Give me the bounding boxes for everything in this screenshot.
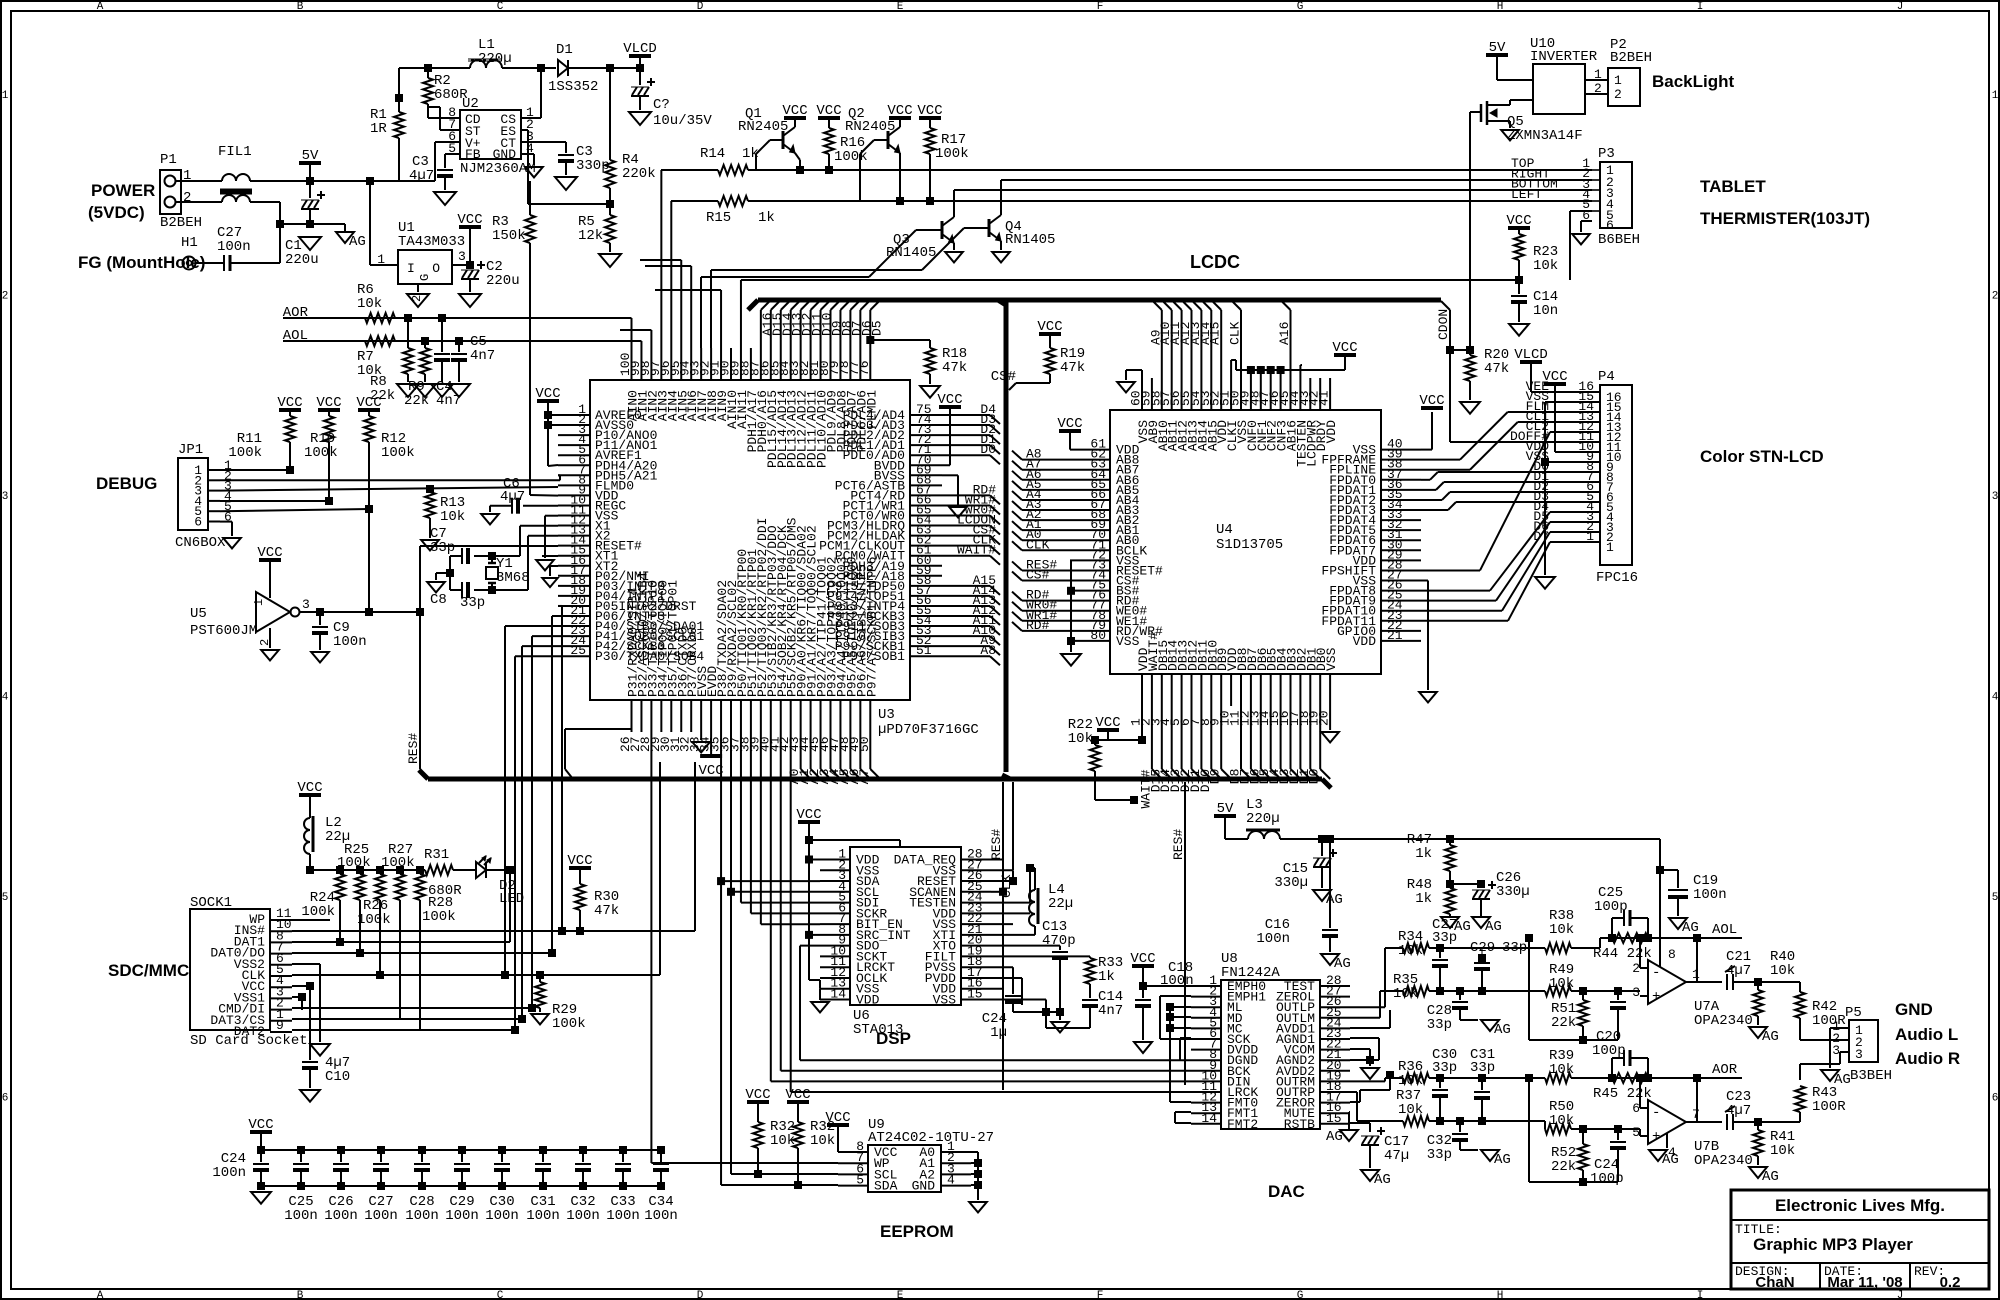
ground <box>434 192 456 205</box>
resistor R20 <box>1450 349 1470 351</box>
pin 58 <box>910 585 942 587</box>
svg-text:U5: U5 <box>190 606 207 622</box>
wire <box>292 985 310 987</box>
svg-text:100n: 100n <box>212 1165 246 1181</box>
resistor R27 body <box>396 866 404 874</box>
svg-text:FG (MountHole): FG (MountHole) <box>78 253 205 272</box>
pin 66 <box>1070 499 1110 501</box>
wire <box>869 310 871 348</box>
pin 4 <box>941 1185 971 1187</box>
capacitor C10 <box>302 1061 318 1063</box>
svg-text:33p: 33p <box>430 540 455 556</box>
pin 87 <box>760 348 762 380</box>
wire <box>942 474 958 476</box>
svg-text:OPA2340: OPA2340 <box>1694 1013 1753 1029</box>
pin 64 <box>1070 479 1110 481</box>
wire A10 <box>1171 310 1173 378</box>
pin 51 <box>910 655 942 657</box>
svg-text:+: + <box>1652 989 1660 1005</box>
pin 53 <box>910 635 942 637</box>
ground <box>299 237 321 250</box>
wire <box>1421 600 1496 602</box>
svg-text:1: 1 <box>252 599 266 606</box>
resistor R18 <box>870 339 930 341</box>
wire <box>1070 560 1072 652</box>
svg-text:VCC: VCC <box>698 763 723 779</box>
svg-text:33p: 33p <box>1432 1060 1457 1076</box>
ground <box>223 538 241 548</box>
pin 44 <box>1299 378 1301 410</box>
ground AG <box>1441 917 1459 928</box>
wire D1 <box>1309 706 1311 769</box>
pin 3 <box>1161 674 1163 706</box>
wire <box>874 139 888 141</box>
pin 41 <box>1329 378 1331 410</box>
supply VCC <box>710 732 712 754</box>
svg-text:RES#: RES# <box>989 829 1004 860</box>
pin 90 <box>730 348 732 380</box>
wire D12 <box>1191 706 1193 769</box>
pin 26 <box>961 880 991 882</box>
capacitor C3 330p <box>565 150 567 153</box>
svg-text:1k: 1k <box>1098 969 1115 985</box>
pin 11 <box>1240 674 1242 706</box>
svg-text:CLK: CLK <box>1228 321 1243 345</box>
svg-text:100n: 100n <box>333 634 367 650</box>
pin 25 <box>1381 600 1421 602</box>
pin 29 <box>660 700 662 732</box>
svg-text:100k: 100k <box>304 445 338 461</box>
svg-text:LED: LED <box>499 891 524 907</box>
pin 47 <box>1270 378 1272 410</box>
svg-text:I: I <box>407 261 415 276</box>
wire <box>292 1007 532 1009</box>
svg-text:VSS: VSS <box>1116 634 1140 649</box>
capacitor C26 <box>337 1146 345 1154</box>
pin 23 <box>961 912 991 914</box>
ground <box>310 1044 330 1056</box>
svg-text:TA43M033: TA43M033 <box>398 234 465 250</box>
pin 5 <box>1181 674 1183 706</box>
svg-text:VDD: VDD <box>1324 420 1339 444</box>
svg-text:100n: 100n <box>1256 931 1290 947</box>
pin 60 <box>1141 378 1143 410</box>
pin 62 <box>910 545 942 547</box>
svg-text:4µ7: 4µ7 <box>1726 1103 1751 1119</box>
wire <box>1470 111 1481 113</box>
wire <box>1758 981 1800 983</box>
pin 14 <box>1191 1123 1221 1125</box>
pin 20 <box>961 945 991 947</box>
wire RES# <box>1002 782 1004 830</box>
svg-text:14: 14 <box>1201 1111 1217 1126</box>
pin 8 <box>558 484 590 486</box>
wire <box>770 310 772 348</box>
svg-text:DEBUG: DEBUG <box>96 474 157 493</box>
pin 1 <box>941 1151 971 1153</box>
pin 26 <box>631 700 633 732</box>
svg-text:B: B <box>297 1 304 13</box>
svg-text:100n: 100n <box>1693 887 1727 903</box>
svg-text:3: 3 <box>1855 1047 1863 1062</box>
svg-text:2: 2 <box>2 291 9 303</box>
ground <box>969 1202 987 1212</box>
wire LCDON <box>1441 301 1450 310</box>
pin 53 <box>1210 378 1212 410</box>
wire RIGHT <box>1001 179 1592 181</box>
wire <box>700 732 702 740</box>
pin 51 <box>1230 378 1232 410</box>
wire DIN <box>771 1080 1191 1082</box>
node <box>276 220 284 228</box>
svg-text:THERMISTER(103JT): THERMISTER(103JT) <box>1700 209 1870 228</box>
svg-text:-: - <box>1652 1105 1660 1121</box>
svg-text:10k: 10k <box>810 1133 835 1149</box>
svg-text:1: 1 <box>2 90 9 102</box>
pin 32 <box>1381 529 1421 531</box>
pin 17 <box>1299 674 1301 706</box>
ground AG <box>1666 1133 1668 1148</box>
ground <box>692 742 710 752</box>
svg-text:10k: 10k <box>1068 731 1093 747</box>
wire <box>532 635 558 637</box>
pin 79 <box>1070 630 1110 632</box>
pin 71 <box>910 454 942 456</box>
pin 10 <box>558 504 590 506</box>
ground <box>300 1090 320 1102</box>
svg-text:LEFT: LEFT <box>1511 187 1542 202</box>
wire D9 <box>1220 706 1222 769</box>
svg-text:80: 80 <box>1090 628 1106 643</box>
pin 7 <box>838 1162 868 1164</box>
pin 35 <box>1381 499 1421 501</box>
svg-text:3: 3 <box>302 597 310 612</box>
pin 84 <box>790 348 792 380</box>
svg-text:3M68: 3M68 <box>496 570 530 586</box>
ground <box>599 254 621 267</box>
pin 12 <box>1250 674 1252 706</box>
pin 63 <box>910 535 942 537</box>
pin 22 <box>961 923 991 925</box>
pin 19 <box>1319 674 1321 706</box>
svg-text:10k: 10k <box>440 509 465 525</box>
ground <box>525 167 543 177</box>
wire SCL <box>730 732 732 1174</box>
wire CLK <box>1012 782 1014 870</box>
pin 58 <box>1161 378 1163 410</box>
wire D6 <box>1260 706 1262 769</box>
wire WAIT# <box>942 555 990 557</box>
wire <box>670 201 672 348</box>
svg-text:G: G <box>1297 1290 1304 1300</box>
pin 73 <box>910 434 942 436</box>
wire <box>809 979 820 981</box>
ground AG <box>336 232 354 243</box>
svg-text:2: 2 <box>1614 87 1622 102</box>
wire <box>800 310 802 348</box>
svg-text:A: A <box>97 1290 104 1300</box>
pin 37 <box>740 700 742 732</box>
pin 13 <box>1555 421 1600 423</box>
wire RES# <box>419 612 421 769</box>
capacitor C33 <box>619 1146 627 1154</box>
svg-text:AG: AG <box>1494 1152 1511 1168</box>
svg-text:B3BEH: B3BEH <box>1850 1068 1892 1084</box>
pin 12 <box>820 977 850 979</box>
wire D0 <box>942 454 990 456</box>
svg-text:GND: GND <box>1895 1000 1933 1019</box>
pin 91 <box>720 348 722 380</box>
svg-text:EEPROM: EEPROM <box>880 1222 954 1241</box>
pin 49 <box>1250 378 1252 410</box>
svg-text:15: 15 <box>967 987 983 1002</box>
svg-text:3: 3 <box>1632 985 1640 1000</box>
svg-text:4: 4 <box>2 692 9 704</box>
ground <box>311 652 329 662</box>
svg-text:1k: 1k <box>1415 891 1432 907</box>
pin 28 <box>1320 985 1350 987</box>
pin 17 <box>558 575 590 577</box>
wire <box>991 923 1013 925</box>
pin 6 <box>838 1173 868 1175</box>
wire A13 <box>942 605 990 607</box>
svg-text:1SS352: 1SS352 <box>548 79 598 95</box>
wire <box>300 611 420 613</box>
wire A11 <box>942 625 990 627</box>
wire <box>720 290 722 348</box>
svg-text:CLK: CLK <box>1026 537 1050 552</box>
bus top <box>758 298 1441 303</box>
wire D5 <box>1270 706 1272 769</box>
svg-text:U4: U4 <box>1216 522 1233 538</box>
svg-text:C: C <box>497 1 504 13</box>
svg-text:100k: 100k <box>357 912 391 928</box>
svg-text:D0: D0 <box>1307 769 1322 785</box>
svg-text:220k: 220k <box>622 166 656 182</box>
wire <box>1421 489 1436 491</box>
pin 34 <box>710 700 712 732</box>
wire <box>1421 499 1442 501</box>
wire A3 <box>1022 509 1070 511</box>
ground <box>1460 402 1480 414</box>
pin 6 <box>1191 674 1193 706</box>
pin 39 <box>760 700 762 732</box>
pin 31 <box>1381 539 1421 541</box>
svg-text:RN1405: RN1405 <box>1005 232 1055 248</box>
svg-text:PST600JM: PST600JM <box>190 623 257 639</box>
pin 54 <box>910 625 942 627</box>
svg-text:33p: 33p <box>1427 1147 1452 1163</box>
capacitor C9 <box>316 608 324 616</box>
pin 16 <box>1320 1112 1350 1114</box>
wire <box>261 1185 661 1187</box>
pin 5 <box>1555 501 1600 503</box>
wire D2 <box>942 434 990 436</box>
svg-text:100p: 100p <box>1594 899 1628 915</box>
wire WR0# <box>942 515 990 517</box>
ground <box>260 1186 262 1190</box>
wire A14 <box>1210 310 1212 378</box>
svg-text:100n: 100n <box>644 1208 678 1224</box>
pin 9 <box>1191 1070 1221 1072</box>
wire CLK <box>1240 310 1242 378</box>
pin 5 <box>1191 1027 1221 1029</box>
wire BCK <box>781 1070 1191 1072</box>
svg-text:R31: R31 <box>424 847 449 863</box>
wire RES# <box>1022 569 1070 571</box>
ground <box>459 294 481 307</box>
wire <box>964 227 989 229</box>
svg-text:VSS: VSS <box>933 993 957 1008</box>
svg-text:100R: 100R <box>1812 1013 1846 1029</box>
svg-text:5: 5 <box>856 1173 864 1188</box>
pin 31 <box>680 700 682 732</box>
wire <box>369 181 371 265</box>
svg-text:J: J <box>1897 1290 1904 1300</box>
svg-text:A15: A15 <box>1208 322 1223 345</box>
resistor R25 body <box>356 866 364 874</box>
pin 2 <box>1555 531 1600 533</box>
svg-text:8: 8 <box>1668 947 1676 962</box>
pin 25 <box>1320 1017 1350 1019</box>
pin 73 <box>1070 569 1110 571</box>
svg-text:AG: AG <box>1326 892 1343 908</box>
svg-text:GND: GND <box>493 147 517 162</box>
pin 2 <box>820 869 850 871</box>
pin 15 <box>961 999 991 1001</box>
pin 28 <box>1381 569 1421 571</box>
pin 7 <box>1191 1049 1221 1051</box>
pin 2 <box>1151 674 1153 706</box>
wire <box>1329 706 1331 730</box>
pin 17 <box>961 977 991 979</box>
pin 6 <box>820 912 850 914</box>
wire D3 <box>1290 706 1292 769</box>
wire <box>810 310 812 348</box>
pin 40 <box>770 700 772 732</box>
pin 1 <box>1141 674 1143 706</box>
resistor R47 <box>1446 835 1454 843</box>
pin 21 <box>558 615 590 617</box>
svg-text:D1: D1 <box>556 42 573 58</box>
pin 20 <box>1329 674 1331 706</box>
resistor R19 <box>1049 334 1051 348</box>
svg-text:NJM2360AM: NJM2360AM <box>460 161 536 177</box>
svg-text:6: 6 <box>1992 1093 1999 1105</box>
svg-text:0.2: 0.2 <box>1940 1274 1961 1291</box>
pin 9 <box>558 494 590 496</box>
wire <box>1421 459 1460 461</box>
svg-text:I: I <box>1697 1290 1704 1300</box>
svg-text:BackLight: BackLight <box>1652 72 1735 91</box>
svg-text:100k: 100k <box>422 909 456 925</box>
pin 1 <box>1191 985 1221 987</box>
pin 3 <box>1555 521 1600 523</box>
pin 13 <box>820 988 850 990</box>
pin 25 <box>558 655 590 657</box>
wire <box>292 919 330 921</box>
svg-text:P5: P5 <box>1845 1005 1862 1021</box>
pin 79 <box>839 348 841 380</box>
ground <box>1572 234 1590 244</box>
wire <box>1141 370 1143 378</box>
svg-text:4: 4 <box>1992 692 1999 704</box>
pin 24 <box>1381 610 1421 612</box>
pin 16 <box>558 565 590 567</box>
pin 98 <box>650 348 652 380</box>
pin 34 <box>1381 509 1421 511</box>
wire <box>1421 479 1430 481</box>
pin 61 <box>1070 449 1110 451</box>
pin 52 <box>1220 378 1222 410</box>
wire <box>970 1151 972 1153</box>
svg-text:220u: 220u <box>285 252 319 268</box>
capacitor C26 <box>1450 883 1481 885</box>
wire A7 <box>869 732 871 769</box>
wire D11 <box>1200 706 1202 769</box>
svg-text:3: 3 <box>1992 491 1999 503</box>
pin 67 <box>1070 509 1110 511</box>
ground <box>811 1002 829 1012</box>
svg-text:100n: 100n <box>324 1208 358 1224</box>
svg-text:CDON: CDON <box>1436 309 1451 340</box>
svg-text:47k: 47k <box>942 360 967 376</box>
pin 24 <box>961 902 991 904</box>
wire D13 <box>1181 706 1183 769</box>
IC U4 S1D13705 <box>1110 410 1381 674</box>
pin 19 <box>961 955 991 957</box>
wire <box>1143 985 1191 987</box>
wire <box>449 556 451 590</box>
pin 13 <box>558 535 590 537</box>
wire <box>1349 1111 1350 1113</box>
pin 1 <box>820 859 850 861</box>
pin 59 <box>910 575 942 577</box>
wire <box>220 469 290 471</box>
pin 21 <box>1381 640 1421 642</box>
wire AOL <box>1600 937 1697 939</box>
pin 8 <box>1210 674 1212 706</box>
svg-text:22k: 22k <box>1551 1159 1576 1175</box>
pin 22 <box>1381 630 1421 632</box>
wire <box>839 310 841 348</box>
wire <box>741 902 820 904</box>
pin 14 <box>558 545 590 547</box>
svg-text:1k: 1k <box>758 210 775 226</box>
pin 4 <box>820 891 850 893</box>
svg-text:10u/35V: 10u/35V <box>653 113 712 129</box>
pin 27 <box>1320 996 1350 998</box>
pin 24 <box>558 645 590 647</box>
wire <box>740 732 742 903</box>
svg-text:+: + <box>1652 1129 1660 1145</box>
svg-text:AOR: AOR <box>1712 1062 1738 1078</box>
pin 74 <box>1070 580 1110 582</box>
pin 94 <box>690 348 692 380</box>
pin 80 <box>1070 640 1110 642</box>
svg-text:FB: FB <box>465 147 481 162</box>
op-amp U7A <box>1648 960 1686 1004</box>
pin 13 <box>1191 1112 1221 1114</box>
svg-text:P4: P4 <box>1598 369 1615 385</box>
wire <box>1421 449 1432 451</box>
pin 3 <box>1191 1006 1221 1008</box>
svg-text:4n7: 4n7 <box>470 348 495 364</box>
wire A8 <box>942 655 990 657</box>
pin 11 <box>820 966 850 968</box>
wire DGND <box>800 1059 1191 1061</box>
svg-text:33p: 33p <box>1502 940 1527 956</box>
